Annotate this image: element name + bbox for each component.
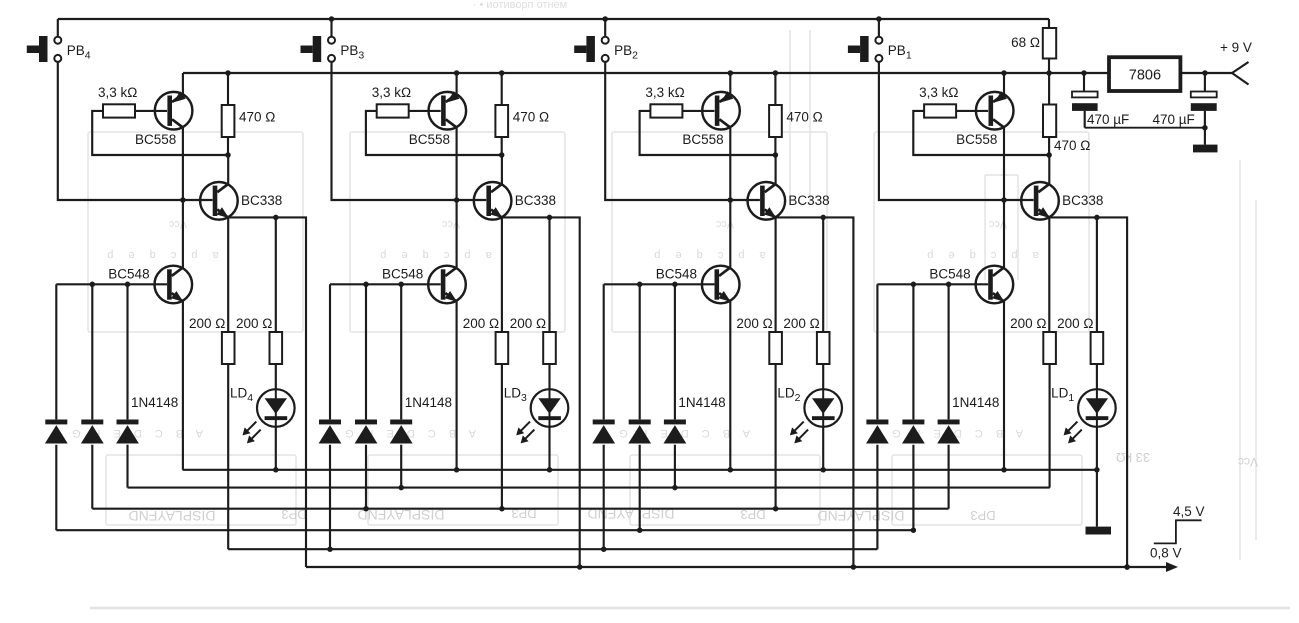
label 470 Ω (block 3) <box>513 110 549 125</box>
svg-text:a p c q e p: a p c q e p <box>648 249 765 261</box>
wire segment bus E <box>228 548 877 550</box>
label 3,3 kΩ (block 4) <box>98 85 137 100</box>
resistor 3,3 kΩ (block 3) <box>377 104 409 117</box>
junction C1/C2 bottom node <box>1202 125 1208 131</box>
junction diode D3 on bus (block 2) <box>672 485 678 491</box>
label BC338 (block 4) <box>241 193 282 208</box>
junction 470 Ω on +6V rail (block 1) <box>1046 70 1052 76</box>
wire BC338 emitter row (block 2) <box>776 217 854 567</box>
resistor 200 Ω a (block 1) <box>1043 332 1056 364</box>
wire 68 Ω to +6V rail <box>1048 59 1050 74</box>
svg-text:470 Ω: 470 Ω <box>1054 138 1090 153</box>
label LD2 <box>777 386 800 405</box>
transistor BC338 (block 3) <box>474 182 512 220</box>
junction feedback node (block 2) <box>773 152 779 158</box>
junction diode D2 on base row (block 1) <box>911 282 917 288</box>
junction C1 on +6V rail <box>1081 70 1087 76</box>
wire 200 Ω a to segment bus C (block 3) <box>501 364 503 509</box>
wire output bus (0,8 V line) <box>306 566 1169 568</box>
label 1N4148 (block 3) <box>405 395 452 410</box>
label BC558 (block 2) <box>682 132 723 147</box>
label 200 Ω a (block 2) <box>736 316 772 331</box>
label 200 Ω a (block 3) <box>463 316 499 331</box>
wire output arrow line <box>1169 566 1170 568</box>
junction 200 Ω a on segment bus C (block 2) <box>773 506 779 512</box>
junction BC548 emitter on ground bus (block 3) <box>454 467 460 473</box>
label 68 Ω <box>1011 35 1040 50</box>
diode 1N4148 D3 (block 3) <box>390 284 413 487</box>
wire LD1 cathode to ground bus <box>1096 427 1098 470</box>
label 470 Ω (block 4) <box>239 110 275 125</box>
svg-text:BC548: BC548 <box>108 266 149 281</box>
wire PB3 to top rail <box>330 19 332 37</box>
wire BC548 base row (block 4) <box>56 283 167 285</box>
wire LD3 cathode to ground bus <box>548 427 550 470</box>
wire feedback node to BC338 collector (block 3) <box>501 155 503 185</box>
wire top supply rail (node after 68 ohm) <box>58 18 1049 20</box>
label 1N4148 (block 4) <box>131 395 178 410</box>
label 470 Ω (block 1) <box>1054 138 1090 153</box>
wire 3,3 kΩ to BC558 base (block 2) <box>682 110 714 112</box>
wire segment bus C <box>92 508 948 510</box>
LED LD3 <box>516 389 568 443</box>
wire emitter row to 200 Ω b (block 4) <box>275 217 277 332</box>
connector +9V <box>1232 62 1249 85</box>
junction BC338 emitter branch on output bus (block 3) <box>577 564 583 570</box>
transistor BC558 (block 4) <box>155 91 193 129</box>
svg-text:BC338: BC338 <box>241 193 282 208</box>
wire 470 Ω bottom lead (block 3) <box>501 137 503 155</box>
label BC338 (block 2) <box>788 193 829 208</box>
label 470 Ω (block 2) <box>786 110 822 125</box>
diode 1N4148 D1 (block 2) <box>592 284 615 549</box>
svg-text:DISPLAYFND: DISPLAYFND <box>818 508 905 524</box>
junction diode D3 on base row (block 1) <box>946 282 952 288</box>
wire emitter row to 200 Ω b (block 1) <box>1096 217 1098 332</box>
wire C1 top lead <box>1083 73 1085 92</box>
label 4,5 V <box>1173 504 1205 519</box>
junction 470 Ω on +6V rail (block 2) <box>773 70 779 76</box>
svg-text:BC558: BC558 <box>135 132 176 147</box>
pushbutton PB1 <box>848 36 883 62</box>
label 3,3 kΩ (block 2) <box>645 85 684 100</box>
junction diode D3 on base row (block 2) <box>672 282 678 288</box>
wire BC338 emitter row (block 4) <box>228 217 306 567</box>
svg-text:BC338: BC338 <box>1062 193 1103 208</box>
capacitor C2 470 µF <box>1191 92 1217 111</box>
junction feedback node (block 1) <box>1046 152 1052 158</box>
junction BC338 emitter branch blk1 on output bus <box>1124 564 1130 570</box>
label PB3 <box>340 43 364 62</box>
label BC338 (block 3) <box>515 193 556 208</box>
wire PB1 to BC338 base <box>879 62 1034 200</box>
wire BC338 emitter to 200 Ω a (block 4) <box>227 217 229 332</box>
junction BC548 emitter on ground bus (block 2) <box>728 467 734 473</box>
junction feedback node (block 3) <box>499 152 505 158</box>
resistor 200 Ω b (block 1) <box>1091 332 1104 364</box>
transistor BC338 (block 2) <box>748 182 786 220</box>
wire 200 Ω a to segment bus E (block 4) <box>227 364 229 549</box>
svg-text:33 kΩ: 33 kΩ <box>1116 450 1151 465</box>
diode 1N4148 D2 (block 3) <box>355 284 378 508</box>
wire BC558 collector down (block 2) <box>729 128 731 201</box>
wire BC548 base row (block 2) <box>604 283 715 285</box>
wire top rail to 68 Ω <box>1048 19 1050 28</box>
resistor 68 Ω <box>1043 28 1056 59</box>
diode 1N4148 D1 (block 3) <box>319 284 342 549</box>
label 200 Ω b (block 1) <box>1057 316 1093 331</box>
resistor 470 Ω (block 3) <box>495 105 508 137</box>
svg-text:3,3 kΩ: 3,3 kΩ <box>919 85 958 100</box>
wire 7806 output to +9V input <box>1180 72 1232 74</box>
label 200 Ω a (block 1) <box>1010 316 1046 331</box>
junction diode D3 on base row (block 4) <box>125 282 131 288</box>
label 200 Ω a (block 4) <box>189 316 225 331</box>
svg-text:LD2: LD2 <box>777 386 800 405</box>
wire BC338 emitter to 200 Ω a (block 2) <box>775 217 777 332</box>
resistor 3,3 kΩ (block 4) <box>103 104 135 117</box>
label PB2 <box>614 43 638 62</box>
junction PB2 on top rail <box>602 16 608 22</box>
svg-text:PB2: PB2 <box>614 43 638 62</box>
junction BC558 collector / BC338 base (block 4) <box>180 197 186 203</box>
wire 470 Ω bottom lead (block 4) <box>227 137 229 155</box>
junction BC558 collector / BC338 base (block 2) <box>728 197 734 203</box>
junction BC558 emitter on +6V rail (block 3) <box>454 70 460 76</box>
svg-text:BC558: BC558 <box>956 132 997 147</box>
pushbutton PB2 <box>574 36 609 62</box>
wire PB3 to BC338 base <box>332 62 487 200</box>
label BC548 (block 1) <box>929 266 970 281</box>
label 3,3 kΩ (block 3) <box>372 85 411 100</box>
svg-text:200 Ω: 200 Ω <box>510 316 546 331</box>
junction LD2 on ground bus <box>820 467 826 473</box>
svg-text:470 Ω: 470 Ω <box>239 110 275 125</box>
transistor BC558 (block 2) <box>702 91 740 129</box>
regulator 7806 <box>1109 57 1180 91</box>
wire 3,3 kΩ to feedback node (block 4) <box>92 111 228 155</box>
label 1N4148 (block 2) <box>678 395 725 410</box>
wire BC558 emitter to +6V rail (block 1) <box>1003 73 1005 95</box>
wire BC548 collector up (block 4) <box>182 200 184 268</box>
junction diode D2 on bus (block 3) <box>363 506 369 512</box>
svg-text:3,3 kΩ: 3,3 kΩ <box>645 85 684 100</box>
ground bar below C2 <box>1193 145 1218 153</box>
svg-text:PB1: PB1 <box>888 43 912 62</box>
junction BC558 collector / BC338 base (block 3) <box>454 197 460 203</box>
junction LD1 on ground bus <box>1094 467 1100 473</box>
waveform step symbol <box>1154 520 1202 543</box>
wire BC548 collector up (block 3) <box>456 200 458 268</box>
wire 200 Ω b to LD3 <box>548 364 550 389</box>
junction diode D1 on bus (block 3) <box>327 546 333 552</box>
svg-text:BC338: BC338 <box>515 193 556 208</box>
label 200 Ω b (block 3) <box>510 316 546 331</box>
wire BC548 emitter to ground bus (block 3) <box>456 302 458 470</box>
wire LD1 node to ground <box>1096 470 1098 527</box>
label LD1 <box>1051 386 1074 405</box>
transistor BC548 (block 4) <box>155 266 193 304</box>
diode 1N4148 D3 (block 1) <box>937 284 960 508</box>
label 1N4148 (block 1) <box>952 395 999 410</box>
wire C1 to C2 bottom link <box>1085 127 1205 129</box>
wire PB4 to BC338 base <box>58 62 213 200</box>
svg-text:1N4148: 1N4148 <box>131 395 178 410</box>
junction LD4 on ground bus <box>273 467 279 473</box>
svg-text:1N4148: 1N4148 <box>952 395 999 410</box>
svg-text:LD4: LD4 <box>230 386 253 405</box>
resistor 470 Ω (block 4) <box>222 105 235 137</box>
wire ground bus (LED cathodes / BC548 emitters) <box>183 469 1097 471</box>
diode 1N4148 D2 (block 2) <box>628 284 651 530</box>
wire PB2 to top rail <box>604 19 606 37</box>
diode 1N4148 D2 (block 4) <box>81 284 104 508</box>
svg-text:470 Ω: 470 Ω <box>513 110 549 125</box>
svg-text:470 Ω: 470 Ω <box>786 110 822 125</box>
label 3,3 kΩ (block 1) <box>919 85 958 100</box>
wire feedback node to BC338 collector (block 1) <box>1048 155 1050 185</box>
diode 1N4148 D3 (block 4) <box>116 284 139 487</box>
wire BC548 base row (block 3) <box>330 283 441 285</box>
label BC558 (block 1) <box>956 132 997 147</box>
wire C1 bottom lead <box>1084 111 1086 128</box>
junction diode D2 on bus (block 2) <box>637 527 643 533</box>
svg-text:7806: 7806 <box>1129 68 1161 84</box>
junction diode D3 on base row (block 3) <box>398 282 404 288</box>
junction 470 Ω on +6V rail (block 4) <box>225 70 231 76</box>
label BC548 (block 3) <box>382 266 423 281</box>
junction diode D2 on base row (block 2) <box>637 282 643 288</box>
LED LD4 <box>243 389 295 443</box>
label 470 µF (C1) <box>1087 112 1129 127</box>
diode 1N4148 D1 (block 1) <box>866 284 889 549</box>
diode 1N4148 D1 (block 4) <box>45 284 68 530</box>
wire 200 Ω b to LD4 <box>275 364 277 389</box>
svg-text:BC558: BC558 <box>682 132 723 147</box>
diode 1N4148 D2 (block 1) <box>902 284 925 530</box>
wire 470 Ω top lead (block 4) <box>227 73 229 105</box>
svg-text:LD3: LD3 <box>504 386 527 405</box>
svg-text:1N4148: 1N4148 <box>405 395 452 410</box>
label PB1 <box>888 43 912 62</box>
transistor BC338 (block 4) <box>200 182 238 220</box>
svg-text:3,3 kΩ: 3,3 kΩ <box>98 85 137 100</box>
svg-text:4,5 V: 4,5 V <box>1173 504 1205 519</box>
resistor 200 Ω b (block 3) <box>543 332 556 364</box>
svg-text:a p c q e p: a p c q e p <box>101 249 218 261</box>
svg-text:DP3: DP3 <box>970 508 995 523</box>
junction +9V node <box>1202 70 1208 76</box>
svg-text:200 Ω: 200 Ω <box>1010 316 1046 331</box>
label LD4 <box>230 386 253 405</box>
svg-text:200 Ω: 200 Ω <box>236 316 272 331</box>
wire 470 Ω top lead (block 2) <box>774 73 776 105</box>
svg-text:· • иотиворп отнем: · • иотиворп отнем <box>473 0 567 11</box>
resistor 200 Ω a (block 3) <box>496 332 509 364</box>
wire 470 Ω top lead (block 1) <box>1048 73 1050 105</box>
svg-text:0,8 V: 0,8 V <box>1150 546 1182 561</box>
junction diode D3 on bus (block 3) <box>398 485 404 491</box>
wire C2 bottom lead <box>1204 111 1206 145</box>
wire BC548 base row (block 1) <box>877 283 988 285</box>
junction diode D2 on base row (block 4) <box>90 282 96 288</box>
resistor 200 Ω a (block 4) <box>222 332 235 364</box>
svg-text:1N4148: 1N4148 <box>678 395 725 410</box>
label 7806 <box>1129 68 1161 84</box>
label BC548 (block 4) <box>108 266 149 281</box>
wire feedback node to BC338 collector (block 4) <box>227 155 229 185</box>
svg-text:a p c q e p: a p c q e p <box>374 249 491 261</box>
diode 1N4148 D3 (block 2) <box>664 284 687 487</box>
svg-text:470 µF: 470 µF <box>1153 112 1195 127</box>
wire BC338 emitter to 200 Ω a (block 3) <box>501 217 503 332</box>
arrow output 0,8 V <box>1166 562 1178 572</box>
label LD3 <box>504 386 527 405</box>
pushbutton PB3 <box>301 36 336 62</box>
svg-text:Vcc: Vcc <box>168 218 187 230</box>
resistor 3,3 kΩ (block 1) <box>924 104 956 117</box>
junction BC558 emitter on +6V rail (block 2) <box>728 70 734 76</box>
resistor 200 Ω b (block 4) <box>270 332 283 364</box>
wire emitter row to 200 Ω b (block 2) <box>822 217 824 332</box>
junction diode D1 on bus (block 2) <box>601 546 607 552</box>
pushbutton PB4 <box>27 36 62 62</box>
wire BC548 emitter to ground bus (block 4) <box>182 302 184 470</box>
label BC548 (block 2) <box>656 266 697 281</box>
junction BC558 emitter on +6V rail (block 1) <box>1001 70 1007 76</box>
junction 200 Ω b on emitter row (block 2) <box>820 215 826 221</box>
label 470 µF (C2) <box>1153 112 1195 127</box>
wire BC548 collector up (block 2) <box>729 200 731 268</box>
wire 200 Ω a to segment bus B (block 1) <box>1049 364 1051 488</box>
wire BC338 emitter to 200 Ω a (block 1) <box>1048 217 1050 332</box>
wire 470 Ω top lead (block 3) <box>501 73 503 105</box>
junction diode D2 on bus (block 1) <box>911 527 917 533</box>
wire BC558 collector down (block 3) <box>456 128 458 201</box>
wire 200 Ω a to segment bus C (block 2) <box>775 364 777 509</box>
svg-text:BC548: BC548 <box>656 266 697 281</box>
resistor 200 Ω b (block 2) <box>817 332 830 364</box>
junction BC338 emitter branch on output bus (block 2) <box>851 564 857 570</box>
wire BC558 collector down (block 1) <box>1003 128 1005 201</box>
svg-text:BC548: BC548 <box>929 266 970 281</box>
transistor BC338 (block 1) <box>1021 182 1059 220</box>
svg-text:68 Ω: 68 Ω <box>1011 35 1040 50</box>
wire 3,3 kΩ to BC558 base (block 3) <box>409 110 441 112</box>
wire PB2 to BC338 base <box>605 62 760 200</box>
label PB4 <box>67 43 91 62</box>
wire BC548 emitter to ground bus (block 2) <box>729 302 731 470</box>
label BC558 (block 3) <box>409 132 450 147</box>
wire BC558 emitter to +6V rail (block 2) <box>729 73 731 95</box>
wire BC338 emitter row (block 1) <box>1049 217 1127 567</box>
transistor BC548 (block 3) <box>428 266 466 304</box>
svg-text:PB4: PB4 <box>67 43 91 62</box>
junction LD3 on ground bus <box>547 467 553 473</box>
svg-text:BC548: BC548 <box>382 266 423 281</box>
svg-text:200 Ω: 200 Ω <box>736 316 772 331</box>
svg-text:Vcc: Vcc <box>1238 455 1258 469</box>
wire PB1 to top rail <box>878 19 880 37</box>
junction 200 Ω a on segment bus C (block 3) <box>499 506 505 512</box>
svg-text:200 Ω: 200 Ω <box>783 316 819 331</box>
svg-text:LD1: LD1 <box>1051 386 1074 405</box>
junction diode D2 on base row (block 3) <box>363 282 369 288</box>
junction PB3 on top rail <box>329 16 335 22</box>
resistor 470 Ω (block 1) <box>1043 105 1056 138</box>
junction 200 Ω b on emitter row (block 3) <box>547 215 553 221</box>
wire 3,3 kΩ to feedback node (block 1) <box>913 111 1049 155</box>
wire 3,3 kΩ to BC558 base (block 4) <box>135 110 167 112</box>
junction feedback node (block 4) <box>225 152 231 158</box>
junction BC338 emitter branch on output bus (block 1) <box>1124 564 1130 570</box>
wire BC548 emitter to ground bus (block 1) <box>1003 302 1005 470</box>
svg-text:200 Ω: 200 Ω <box>189 316 225 331</box>
wire BC558 collector down (block 4) <box>182 128 184 201</box>
label BC338 (block 1) <box>1062 193 1103 208</box>
ground symbol <box>1086 527 1112 535</box>
wire BC558 emitter to +6V rail (block 4) <box>182 73 184 95</box>
wire BC548 collector up (block 1) <box>1003 200 1005 268</box>
wire 3,3 kΩ to feedback node (block 3) <box>366 111 502 155</box>
label 200 Ω b (block 2) <box>783 316 819 331</box>
LED LD1 <box>1064 389 1116 443</box>
capacitor C1 470 µF <box>1072 92 1098 111</box>
transistor BC548 (block 2) <box>702 266 740 304</box>
wire LD4 cathode to ground bus <box>275 427 277 470</box>
junction BC558 collector / BC338 base (block 1) <box>1001 197 1007 203</box>
wire 470 Ω bottom lead (block 2) <box>774 137 776 155</box>
junction BC548 emitter on ground bus (block 1) <box>1001 467 1007 473</box>
svg-text:200 Ω: 200 Ω <box>463 316 499 331</box>
transistor BC558 (block 1) <box>976 91 1014 129</box>
junction 200 Ω b on emitter row (block 1) <box>1094 215 1100 221</box>
svg-text:DISPLAYFND: DISPLAYFND <box>129 508 216 524</box>
label 0,8 V <box>1150 546 1182 561</box>
svg-text:200 Ω: 200 Ω <box>1057 316 1093 331</box>
resistor 3,3 kΩ (block 2) <box>650 104 682 117</box>
junction 470 Ω on +6V rail (block 3) <box>499 70 505 76</box>
wire LD2 cathode to ground bus <box>822 427 824 470</box>
transistor BC548 (block 1) <box>976 266 1014 304</box>
svg-text:470 µF: 470 µF <box>1087 112 1129 127</box>
svg-text:3,3 kΩ: 3,3 kΩ <box>372 85 411 100</box>
wire +6V rail from 7806 output <box>183 72 1109 74</box>
svg-text:a p c q e p: a p c q e p <box>921 249 1038 261</box>
wire emitter row to 200 Ω b (block 3) <box>548 217 550 332</box>
resistor 470 Ω (block 2) <box>769 105 782 137</box>
wire feedback node to BC338 collector (block 2) <box>775 155 777 185</box>
wire 3,3 kΩ to feedback node (block 2) <box>640 111 776 155</box>
LED LD2 <box>790 389 842 443</box>
transistor BC558 (block 3) <box>429 91 467 129</box>
svg-text:+ 9 V: + 9 V <box>1220 40 1252 55</box>
wire 3,3 kΩ to BC558 base (block 1) <box>956 110 988 112</box>
resistor 200 Ω a (block 2) <box>769 332 782 364</box>
junction 200 Ω b on emitter row (block 4) <box>273 215 279 221</box>
svg-text:BC338: BC338 <box>788 193 829 208</box>
wire 470 Ω bottom lead (block 1) <box>1048 137 1050 155</box>
wire PB4 to top rail <box>57 19 59 37</box>
label BC558 (block 4) <box>135 132 176 147</box>
label + 9 V <box>1220 40 1252 55</box>
svg-text:BC558: BC558 <box>409 132 450 147</box>
wire BC558 emitter to +6V rail (block 3) <box>456 73 458 95</box>
svg-text:PB3: PB3 <box>340 43 364 62</box>
wire segment bus B <box>128 487 1050 489</box>
wire segment bus D <box>56 529 913 531</box>
label 200 Ω b (block 4) <box>236 316 272 331</box>
